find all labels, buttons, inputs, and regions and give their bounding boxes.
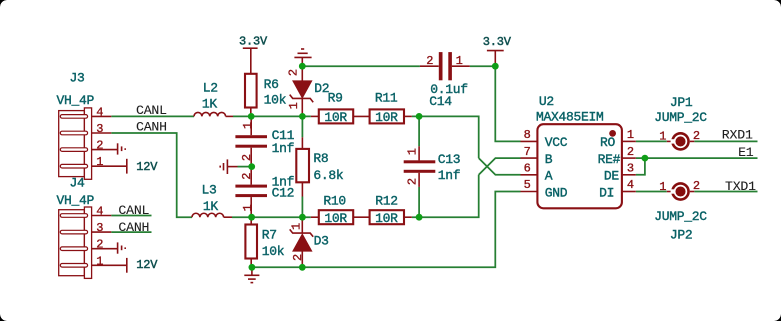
wire R8 column top <box>301 116 303 137</box>
svg-text:CANH: CANH <box>118 220 149 235</box>
J3 pin numbers <box>96 105 103 169</box>
resistor R12 <box>353 216 369 218</box>
wire ground rail to GND pin 5 <box>252 192 521 268</box>
inductor L2 <box>194 112 226 116</box>
svg-text:2: 2 <box>287 69 301 76</box>
svg-text:4: 4 <box>627 178 634 192</box>
svg-text:C14: C14 <box>429 94 452 109</box>
svg-text:CANH: CANH <box>136 120 167 135</box>
node C11/C12 ground <box>248 163 255 170</box>
resistor R10 <box>311 216 319 218</box>
svg-text:1: 1 <box>406 148 420 155</box>
svg-text:CANL: CANL <box>118 203 149 218</box>
svg-text:DI: DI <box>599 185 614 200</box>
svg-text:1: 1 <box>627 128 634 142</box>
connector J4 <box>59 207 127 278</box>
U2 pin numbers <box>524 128 635 192</box>
svg-text:R7: R7 <box>262 227 277 242</box>
svg-text:2: 2 <box>406 178 420 185</box>
svg-text:C13: C13 <box>438 152 461 167</box>
svg-text:3.3V: 3.3V <box>483 35 512 49</box>
diode D3 <box>301 217 303 233</box>
svg-text:J3: J3 <box>70 71 85 86</box>
svg-text:C12: C12 <box>272 186 295 201</box>
svg-text:VH_4P: VH_4P <box>57 93 95 108</box>
svg-text:L3: L3 <box>202 182 217 197</box>
capacitor C14 <box>420 65 439 67</box>
power 3.3V at R6 <box>243 47 258 49</box>
svg-text:RE#: RE# <box>598 152 621 167</box>
wire RE# to E1 <box>636 157 758 159</box>
wire CANH J3 down to L3 <box>111 133 192 217</box>
resistor R8 <box>301 137 303 149</box>
svg-text:2: 2 <box>96 139 103 153</box>
inductor L3 <box>192 213 224 217</box>
wire RO to JP1 <box>636 140 667 142</box>
svg-text:10k: 10k <box>262 244 285 259</box>
wire C13 top <box>418 116 420 146</box>
svg-text:5: 5 <box>524 178 531 192</box>
node D3 bottom <box>299 264 306 271</box>
U2 orientation dot <box>609 130 616 137</box>
svg-text:RO: RO <box>600 135 616 150</box>
connector J3 <box>59 108 127 179</box>
svg-text:10R: 10R <box>324 211 347 226</box>
resistor R7 <box>250 217 252 224</box>
resistor R11 <box>353 115 369 117</box>
svg-text:RXD1: RXD1 <box>722 128 753 143</box>
svg-text:6.8k: 6.8k <box>313 168 344 183</box>
svg-text:1: 1 <box>287 102 301 109</box>
power 3.3V right <box>487 50 504 52</box>
svg-text:8: 8 <box>524 128 531 142</box>
svg-text:2: 2 <box>426 54 433 68</box>
svg-text:A: A <box>545 169 553 184</box>
svg-text:12V: 12V <box>136 160 158 174</box>
12V power symbol at J3 pin 1 <box>126 159 128 174</box>
wire DI to JP2 <box>636 191 667 193</box>
inverted ground above D2 <box>294 49 311 57</box>
svg-text:1: 1 <box>659 130 666 144</box>
wire JP1 to RXD1 <box>694 140 757 142</box>
svg-text:DE: DE <box>604 169 620 184</box>
node 3.3V/C14 <box>492 63 499 70</box>
svg-text:10R: 10R <box>375 211 398 226</box>
capacitor C12 <box>250 167 252 185</box>
capacitor C11 <box>250 116 252 135</box>
svg-text:2: 2 <box>291 254 305 261</box>
svg-text:3.3V: 3.3V <box>239 35 268 49</box>
U2 left pins <box>521 141 538 191</box>
svg-text:1: 1 <box>96 254 103 268</box>
svg-text:1K: 1K <box>203 199 219 214</box>
ground at J4 pin 2 <box>118 242 126 253</box>
wire C14 to 3.3V node <box>470 65 496 67</box>
corner masks <box>0 0 7 7</box>
capacitor C13 <box>418 146 420 160</box>
ground below R7 <box>251 267 253 275</box>
svg-text:3: 3 <box>96 122 103 136</box>
U2 pin names <box>545 135 621 200</box>
node R7 ground <box>249 264 256 271</box>
svg-text:3: 3 <box>627 162 634 176</box>
wire top rail R11 to crossover, down <box>412 116 479 158</box>
svg-text:MAX485EIM: MAX485EIM <box>536 109 604 124</box>
resistor R9 <box>311 115 319 117</box>
jumper JP2 <box>667 191 673 193</box>
wire L2 to R9 rail <box>233 115 311 117</box>
svg-text:J4: J4 <box>70 175 86 190</box>
svg-text:R9: R9 <box>328 91 343 106</box>
diode D2 <box>301 66 303 82</box>
svg-text:10R: 10R <box>324 110 347 125</box>
IC U2 MAX485EIM <box>537 124 622 208</box>
wire crossover diagonal to pin B <box>479 158 521 175</box>
wire DE jog to E1 net <box>636 158 645 175</box>
svg-text:1: 1 <box>659 180 666 194</box>
resistor R6 <box>245 74 257 108</box>
wire 3.3V node down to VCC pin 8 <box>495 66 520 141</box>
wire C13 bottom <box>418 187 420 217</box>
svg-text:E1: E1 <box>738 145 754 160</box>
svg-text:1K: 1K <box>202 96 218 111</box>
wire R8 column bottom <box>301 197 303 218</box>
svg-text:GND: GND <box>545 185 568 200</box>
svg-text:7: 7 <box>524 145 531 159</box>
svg-text:10k: 10k <box>264 93 287 108</box>
12V power symbol at J4 pin 1 <box>126 258 128 273</box>
node D2/R8/R9 <box>299 113 306 120</box>
ground between C11 and C12 <box>227 166 237 168</box>
svg-text:2: 2 <box>240 173 254 180</box>
svg-text:2: 2 <box>627 145 634 159</box>
svg-text:1: 1 <box>241 122 255 129</box>
svg-text:R11: R11 <box>375 91 398 106</box>
svg-text:1: 1 <box>290 223 304 230</box>
svg-text:3: 3 <box>96 221 103 235</box>
J4 pin numbers <box>96 205 103 269</box>
svg-text:2: 2 <box>240 154 254 161</box>
svg-text:R12: R12 <box>375 194 398 209</box>
node R11/C13 <box>416 113 423 120</box>
svg-text:R6: R6 <box>264 77 279 92</box>
U2 right pins <box>622 141 636 191</box>
svg-text:D3: D3 <box>314 234 329 249</box>
svg-text:TXD1: TXD1 <box>725 179 756 194</box>
node R8/D3/R10 <box>299 214 306 221</box>
svg-text:4: 4 <box>96 205 103 219</box>
wire bottom rail R12 to crossover, up <box>412 175 479 217</box>
svg-text:JUMP_2C: JUMP_2C <box>654 110 707 125</box>
wire CANL J3 to L2 <box>111 115 194 117</box>
wire L3 to R10 rail <box>232 216 311 218</box>
svg-text:VH_4P: VH_4P <box>57 193 95 208</box>
svg-text:2: 2 <box>96 238 103 252</box>
wire crossover diagonal to pin A <box>479 158 521 175</box>
svg-text:CANL: CANL <box>136 103 167 118</box>
svg-text:10R: 10R <box>375 110 398 125</box>
svg-text:12V: 12V <box>136 258 158 272</box>
wire mid ground stub <box>238 166 252 168</box>
node R12/C13 <box>416 214 423 221</box>
jumper JP1 <box>667 140 673 142</box>
node CANL/R6/C11 <box>248 113 255 120</box>
svg-text:VCC: VCC <box>545 135 568 150</box>
svg-text:JP2: JP2 <box>670 227 693 242</box>
svg-text:R10: R10 <box>323 194 346 209</box>
svg-text:1: 1 <box>456 54 463 68</box>
svg-text:1: 1 <box>96 155 103 169</box>
svg-text:6: 6 <box>524 162 531 176</box>
node D2 top <box>299 63 306 70</box>
svg-text:U2: U2 <box>539 94 554 109</box>
svg-text:1nf: 1nf <box>438 168 461 183</box>
svg-text:2: 2 <box>693 179 700 193</box>
wire JP2 to TXD1 <box>694 191 757 193</box>
svg-text:1nf: 1nf <box>272 141 295 156</box>
svg-text:JUMP_2C: JUMP_2C <box>654 209 707 224</box>
svg-text:L2: L2 <box>203 81 218 96</box>
svg-text:B: B <box>545 152 553 167</box>
svg-text:2: 2 <box>693 129 700 143</box>
svg-text:JP1: JP1 <box>670 95 693 110</box>
wire J4 CANL stub <box>111 215 151 217</box>
svg-text:R8: R8 <box>313 151 328 166</box>
wire J4 CANH stub <box>111 231 151 233</box>
node E1/DE <box>642 155 649 162</box>
svg-text:4: 4 <box>96 105 103 119</box>
ground at J3 pin 2 <box>118 143 126 154</box>
svg-text:1: 1 <box>241 204 255 211</box>
wire D2 top to C14 <box>302 65 420 67</box>
node CANH/C12/R7 <box>248 214 255 221</box>
